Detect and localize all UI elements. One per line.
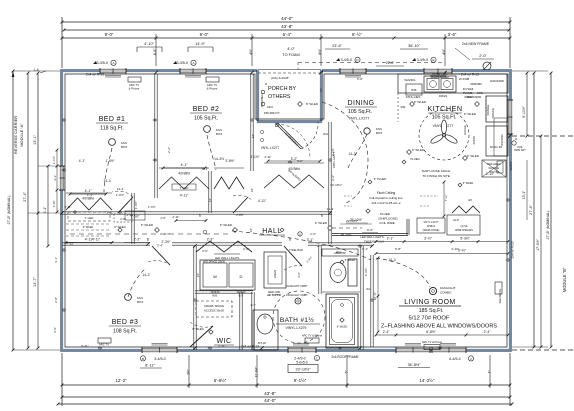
hall-living dashed arc bbox=[232, 231, 371, 260]
svg-text:2’-11”: 2’-11” bbox=[218, 344, 225, 348]
svg-text:D: D bbox=[240, 274, 243, 279]
svg-text:CRAWL SPACE: CRAWL SPACE bbox=[204, 304, 224, 308]
svg-text:23’-6”: 23’-6” bbox=[332, 44, 342, 48]
bed2 fan box bbox=[204, 126, 225, 170]
svg-text:105 Sq.Ft.: 105 Sq.Ft. bbox=[348, 109, 372, 115]
svg-text:6” WLED: 6” WLED bbox=[414, 100, 427, 104]
svg-text:FAN/LIGHT CMBT: FAN/LIGHT CMBT bbox=[287, 285, 308, 288]
svg-text:7’ LED: 7’ LED bbox=[85, 216, 95, 220]
svg-text:12’-6½”: 12’-6½” bbox=[255, 367, 259, 378]
bath mirror medicine cabinet bbox=[289, 248, 358, 256]
svg-text:6” WLED: 6” WLED bbox=[192, 327, 203, 331]
svg-text:2’-1”: 2’-1” bbox=[164, 232, 170, 236]
svg-text:TWSP AWY (2)-0: TWSP AWY (2)-0 bbox=[364, 240, 385, 244]
svg-text:3½”: 3½” bbox=[187, 369, 191, 375]
interior wall hall/bed2 closet bbox=[209, 171, 211, 213]
svg-text:RAD430R: RAD430R bbox=[490, 79, 504, 83]
svg-text:DW: DW bbox=[401, 105, 406, 109]
window schedule labels above top wall bbox=[93, 57, 436, 65]
svg-text:10’-10½”: 10’-10½” bbox=[330, 183, 342, 187]
svg-text:6” WLED: 6” WLED bbox=[83, 225, 94, 229]
window B bed3 bottom wall bbox=[142, 347, 177, 353]
svg-text:(SHIPLOOSE): (SHIPLOOSE) bbox=[378, 217, 397, 221]
svg-text:44’-0”: 44’-0” bbox=[264, 398, 276, 403]
svg-text:43’-8”: 43’-8” bbox=[281, 24, 293, 29]
svg-text:2’-10”: 2’-10” bbox=[486, 172, 494, 176]
svg-text:6’-4”: 6’-4” bbox=[283, 32, 292, 37]
svg-text:29’-10½”: 29’-10½” bbox=[346, 219, 358, 223]
svg-text:118 Sq.Ft.: 118 Sq.Ft. bbox=[100, 126, 124, 132]
svg-text:4’-11”: 4’-11” bbox=[92, 238, 100, 242]
svg-text:PORCH BY: PORCH BY bbox=[268, 86, 297, 92]
label WIC bbox=[214, 338, 234, 345]
bifold closet bed1 bbox=[66, 189, 112, 210]
svg-text:2’-2”: 2’-2” bbox=[134, 238, 141, 242]
svg-text:$: $ bbox=[289, 238, 291, 242]
svg-text:3’-1”: 3’-1” bbox=[362, 247, 368, 251]
svg-text:3’-11”: 3’-11” bbox=[107, 211, 114, 215]
svg-text:27’-8” (NOMINAL): 27’-8” (NOMINAL) bbox=[7, 196, 11, 225]
svg-text:43’-8”: 43’-8” bbox=[264, 391, 276, 396]
svg-text:1’-10”: 1’-10” bbox=[52, 200, 56, 207]
svg-text:3’-6”: 3’-6” bbox=[53, 327, 57, 333]
svg-text:9’-0”: 9’-0” bbox=[200, 32, 209, 37]
wic door bbox=[190, 322, 213, 347]
svg-text:3’-1½”: 3’-1½” bbox=[250, 155, 259, 159]
bed3 door bbox=[148, 246, 170, 265]
svg-text:SHIP LOOSE 140x4x: SHIP LOOSE 140x4x bbox=[422, 169, 451, 173]
svg-text:5’-8”: 5’-8” bbox=[395, 247, 401, 251]
window A bed2 top wall bbox=[180, 68, 206, 74]
svg-text:23’-10½”: 23’-10½” bbox=[296, 368, 312, 372]
svg-text:BED #2: BED #2 bbox=[193, 106, 220, 113]
svg-text:105 Sq.Ft.: 105 Sq.Ft. bbox=[194, 116, 218, 122]
dining fan box bbox=[348, 127, 382, 168]
svg-text:RNPBL: RNPBL bbox=[472, 135, 476, 144]
washer dryer space bbox=[200, 254, 255, 297]
svg-text:16”: 16” bbox=[208, 198, 212, 202]
svg-text:9’-0”: 9’-0” bbox=[105, 32, 114, 37]
svg-text:6” WLED: 6” WLED bbox=[315, 221, 328, 225]
svg-text:4/0 Bifld: 4/0 Bifld bbox=[82, 197, 94, 201]
svg-text:3’-6½”: 3’-6½” bbox=[364, 268, 368, 277]
svg-text:MODULE “B”: MODULE “B” bbox=[562, 267, 567, 292]
bottom dimension lines 12'-2 / 43'-8 / 44'-0 bbox=[57, 353, 514, 406]
svg-text:VNYL.LX277: VNYL.LX277 bbox=[424, 220, 440, 224]
svg-text:8½”: 8½” bbox=[318, 49, 322, 55]
interior wall bath right / living left bbox=[361, 246, 373, 350]
svg-text:W3612: W3612 bbox=[427, 224, 436, 228]
svg-text:2x4 w/ R-13: 2x4 w/ R-13 bbox=[241, 345, 259, 349]
svg-text:DW24: DW24 bbox=[439, 94, 448, 98]
svg-text:W2230L: W2230L bbox=[404, 78, 416, 82]
svg-text:BED #1: BED #1 bbox=[99, 116, 126, 123]
label DINING 105 sqft bbox=[345, 100, 377, 121]
interior wall bed1/bed2 divider bbox=[155, 74, 157, 198]
label KITCHEN 105 sqft bbox=[427, 104, 462, 128]
svg-text:14–3: 14–3 bbox=[117, 187, 124, 191]
svg-text:5’-2”: 5’-2” bbox=[297, 159, 303, 163]
bed2 door bbox=[233, 195, 252, 213]
label BED #1 bbox=[96, 116, 128, 132]
svg-text:GFCI: GFCI bbox=[267, 105, 273, 109]
svg-text:4/0 Bifld: 4/0 Bifld bbox=[178, 172, 190, 176]
bottom window/door schedule labels bbox=[140, 355, 474, 373]
interior wall bath/toilet divider bbox=[319, 246, 321, 294]
svg-text:36’-10”: 36’-10” bbox=[408, 44, 421, 48]
svg-text:2x4 NEW FRAME: 2x4 NEW FRAME bbox=[462, 42, 490, 46]
extra annotation clutter kitchen-dining bbox=[81, 61, 513, 348]
svg-text:2’-6”: 2’-6” bbox=[120, 217, 126, 221]
svg-text:PIR-389-2½”: PIR-389-2½” bbox=[264, 111, 280, 115]
interior wall entry right bbox=[329, 122, 331, 244]
svg-text:LED WALL LIGHTS: LED WALL LIGHTS bbox=[215, 256, 240, 260]
svg-text:& Phone: & Phone bbox=[207, 86, 218, 90]
svg-text:$: $ bbox=[147, 238, 149, 242]
svg-text:27’-8” (NOMINAL): 27’-8” (NOMINAL) bbox=[546, 211, 550, 240]
svg-text:4’-11”: 4’-11” bbox=[66, 242, 74, 246]
svg-text:3-4/5-0: 3-4/5-0 bbox=[154, 357, 165, 361]
svg-text:5’-3½”: 5’-3½” bbox=[460, 237, 470, 241]
svg-text:3-4/5-0: 3-4/5-0 bbox=[97, 61, 108, 65]
svg-text:3’-4”: 3’-4” bbox=[157, 244, 163, 248]
svg-text:B: B bbox=[142, 357, 144, 361]
interior wall bed2 right bbox=[251, 74, 253, 171]
svg-text:2’-1”: 2’-1” bbox=[387, 237, 394, 241]
linen closet bbox=[264, 252, 286, 297]
living room right wall detail bbox=[495, 282, 502, 303]
svg-text:T’WEL BAR: T’WEL BAR bbox=[289, 248, 303, 252]
svg-text:COMBO: COMBO bbox=[440, 290, 452, 294]
svg-text:SEE DETAIL: SEE DETAIL bbox=[498, 288, 502, 303]
bath fan light bbox=[286, 293, 308, 304]
svg-text:OTHERS: OTHERS bbox=[268, 94, 291, 100]
svg-text:SPACE: SPACE bbox=[491, 108, 495, 118]
svg-text:14–3: 14–3 bbox=[327, 207, 334, 211]
svg-text:15’-1”: 15’-1” bbox=[522, 191, 526, 199]
svg-text:1”: 1” bbox=[488, 371, 492, 374]
svg-text:MED CAB: MED CAB bbox=[268, 290, 280, 294]
svg-text:3’-8½”: 3’-8½” bbox=[225, 159, 234, 163]
svg-text:44’-0”: 44’-0” bbox=[281, 16, 293, 21]
svg-text:2’-11”: 2’-11” bbox=[65, 205, 72, 209]
svg-text:A: A bbox=[192, 61, 194, 65]
svg-text:27’-4”: 27’-4” bbox=[23, 191, 27, 201]
svg-text:2’-3”: 2’-3” bbox=[207, 238, 214, 242]
svg-text:4’-1”: 4’-1” bbox=[53, 175, 57, 181]
living room top dimension strings bbox=[375, 237, 510, 255]
svg-text:6” WLED: 6” WLED bbox=[467, 154, 480, 158]
svg-text:2’-0”: 2’-0” bbox=[479, 54, 487, 58]
wall junction slashes bbox=[60, 71, 512, 350]
svg-text:Ref Floor: Ref Floor bbox=[489, 166, 500, 170]
svg-text:7’-¾”: 7’-¾” bbox=[444, 195, 448, 201]
svg-text:2’-8”: 2’-8” bbox=[54, 297, 58, 303]
svg-text:LINEN: LINEN bbox=[273, 270, 277, 278]
svg-text:B.V.: B.V. bbox=[239, 293, 244, 297]
svg-text:KITCHEN: KITCHEN bbox=[427, 104, 462, 113]
svg-text:4’-1”: 4’-1” bbox=[79, 159, 85, 163]
label BATH #1 bbox=[276, 316, 320, 330]
svg-text:6” WLED: 6” WLED bbox=[337, 325, 348, 329]
svg-text:BATH #1½: BATH #1½ bbox=[280, 316, 314, 324]
living room bottom dimension strings bbox=[375, 330, 510, 350]
window A bed1 top wall bbox=[100, 68, 126, 74]
svg-text:$: $ bbox=[199, 214, 201, 218]
svg-text:REF AREA: REF AREA bbox=[487, 162, 501, 166]
svg-text:BOX: BOX bbox=[121, 145, 127, 149]
svg-text:VINYL-LX279: VINYL-LX279 bbox=[286, 326, 307, 330]
svg-text:BED #3: BED #3 bbox=[112, 319, 139, 326]
svg-text:36’-8½”: 36’-8½” bbox=[408, 363, 422, 367]
svg-text:16”: 16” bbox=[319, 88, 323, 92]
svg-text:14’-7”: 14’-7” bbox=[33, 276, 37, 286]
svg-text:5”: 5” bbox=[345, 371, 349, 374]
svg-text:28–10½: 28–10½ bbox=[341, 233, 352, 237]
svg-text:6” WLED: 6” WLED bbox=[464, 112, 477, 116]
svg-text:DINING: DINING bbox=[348, 100, 375, 107]
svg-text:TO FOAM: TO FOAM bbox=[282, 53, 299, 57]
closet dim ticks bbox=[65, 160, 322, 244]
svg-text:4½”: 4½” bbox=[249, 49, 253, 55]
svg-text:& Phone: & Phone bbox=[129, 86, 140, 90]
svg-text:W.H.: W.H. bbox=[366, 287, 372, 291]
svg-text:6” WLED: 6” WLED bbox=[463, 181, 474, 185]
svg-text:3’-6”: 3’-6” bbox=[448, 32, 457, 37]
scattered dimension texts bbox=[79, 147, 352, 288]
window living room bottom wall (right) bbox=[432, 347, 466, 353]
bifold closet bed2 bbox=[159, 163, 209, 198]
svg-text:ALP: ALP bbox=[453, 218, 459, 222]
svg-text:ARC TV & Phone: ARC TV & Phone bbox=[422, 340, 443, 344]
right dimension lines and MODULE B bbox=[512, 71, 574, 350]
svg-text:108 Sq.Ft.: 108 Sq.Ft. bbox=[113, 329, 137, 335]
wall insulation notes bbox=[86, 73, 515, 349]
entry extra marks bbox=[260, 124, 310, 163]
svg-text:1’-6½”: 1’-6½” bbox=[148, 205, 156, 209]
svg-text:9’-½”: 9’-½” bbox=[458, 249, 467, 253]
svg-text:ARC TV: ARC TV bbox=[99, 343, 109, 347]
svg-text:W/D SPACE 28x30: W/D SPACE 28x30 bbox=[203, 260, 226, 264]
svg-text:WIRE SHELVES: WIRE SHELVES bbox=[455, 229, 473, 232]
svg-text:14–3½: 14–3½ bbox=[214, 157, 224, 161]
svg-text:3’-½”: 3’-½” bbox=[424, 237, 432, 241]
kitchen extra marks bbox=[477, 92, 506, 177]
svg-text:6-4/5-4: 6-4/5-4 bbox=[449, 357, 460, 361]
svg-text:MT-32: MT-32 bbox=[258, 341, 266, 345]
interior wall bed3/wic divider bbox=[194, 246, 196, 350]
svg-text:3’-0”: 3’-0” bbox=[297, 272, 301, 278]
svg-text:1’-7”: 1’-7” bbox=[250, 303, 256, 307]
extra annotation clutter hall-bed band bbox=[65, 151, 336, 241]
bifold closet entry bbox=[264, 167, 324, 188]
svg-text:1’-1½”: 1’-1½” bbox=[52, 156, 56, 164]
svg-text:2’-0”: 2’-0” bbox=[243, 247, 249, 251]
kitchen ceiling fan with clearance circle bbox=[419, 110, 469, 160]
svg-text:6” WLED: 6” WLED bbox=[306, 102, 319, 106]
svg-text:5/12 70# ROOF: 5/12 70# ROOF bbox=[409, 316, 450, 322]
svg-text:26’-6”: 26’-6” bbox=[386, 61, 394, 65]
svg-text:W2430: W2430 bbox=[237, 290, 246, 294]
bath door bbox=[284, 246, 302, 270]
svg-text:Full-drywall to ceiling line: Full-drywall to ceiling line bbox=[369, 196, 403, 200]
svg-text:B36: B36 bbox=[412, 88, 417, 92]
bath toilet bbox=[330, 250, 357, 286]
window D dining top wall bbox=[340, 68, 366, 74]
svg-text:Flush Ceiling: Flush Ceiling bbox=[377, 191, 396, 195]
svg-text:VNYL.LX277: VNYL.LX277 bbox=[332, 151, 336, 168]
bath vanity sink bbox=[253, 310, 278, 350]
svg-text:RANGE: RANGE bbox=[463, 125, 467, 134]
porch entry door bbox=[275, 122, 318, 149]
svg-text:RANGE: RANGE bbox=[486, 105, 490, 116]
svg-text:MIRROR: MIRROR bbox=[334, 251, 345, 255]
extra annotation clutter middle band bbox=[33, 68, 459, 303]
svg-text:4’-10”: 4’-10” bbox=[451, 247, 459, 251]
svg-text:FAN/LIGHT CMBT: FAN/LIGHT CMBT bbox=[286, 293, 308, 297]
svg-text:DNSPT: DNSPT bbox=[509, 161, 513, 170]
svg-text:14–3: 14–3 bbox=[348, 152, 355, 156]
svg-text:BOX: BOX bbox=[376, 131, 382, 135]
hall dimension strings bbox=[66, 238, 313, 243]
svg-text:27’-4”: 27’-4” bbox=[529, 204, 533, 214]
svg-text:4’-11”: 4’-11” bbox=[173, 215, 180, 219]
svg-text:HALL: HALL bbox=[262, 228, 282, 235]
bath tub 60in bbox=[326, 294, 358, 348]
kitchen counter and sink bbox=[398, 72, 508, 99]
top dimension lines 44'-0 / 43'-8 / segment dims bbox=[61, 16, 512, 68]
svg-text:2x4 w/ R-19: 2x4 w/ R-19 bbox=[461, 73, 479, 77]
svg-text:9’-6”: 9’-6” bbox=[367, 228, 373, 232]
svg-text:1’-10”: 1’-10” bbox=[126, 213, 133, 217]
svg-text:2x4 w/ R-13: 2x4 w/ R-13 bbox=[511, 241, 515, 258]
svg-text:16”: 16” bbox=[250, 188, 254, 192]
svg-text:Z–FLASHING ABOVE ALL WINDOW: Z–FLASHING ABOVE ALL WINDOWS/DOORS bbox=[381, 324, 497, 330]
svg-text:13’-1”: 13’-1” bbox=[33, 134, 37, 144]
window living room bottom wall (left) bbox=[396, 347, 430, 353]
kitchen right wall cabinets range ref bbox=[406, 84, 508, 178]
hall soffit box bbox=[125, 211, 145, 220]
svg-text:5’-11”: 5’-11” bbox=[81, 344, 88, 348]
more scattered annotations bbox=[53, 137, 526, 333]
bifold closet hall linen bbox=[214, 177, 244, 189]
svg-text:3-4/5-0: 3-4/5-0 bbox=[177, 61, 188, 65]
bath clearance circle bbox=[273, 291, 325, 343]
dining door swing arc bbox=[322, 102, 368, 204]
svg-text:6’-8½”: 6’-8½” bbox=[426, 330, 436, 334]
svg-text:3-4/5-0: 3-4/5-0 bbox=[417, 58, 428, 62]
svg-text:9’-1½”: 9’-1½” bbox=[294, 378, 307, 383]
svg-text:14–3: 14–3 bbox=[142, 273, 149, 277]
bed1 door bbox=[112, 191, 133, 213]
svg-text:(2x6) 2x10x8”: (2x6) 2x10x8” bbox=[271, 76, 289, 80]
svg-text:VNYL.LX277: VNYL.LX277 bbox=[261, 146, 280, 150]
svg-text:5’-8½”: 5’-8½” bbox=[214, 378, 227, 383]
svg-text:7’ LED: 7’ LED bbox=[180, 186, 190, 190]
secondary top dims and 2x4 NEW FRAME note bbox=[137, 42, 494, 70]
svg-text:5’-0”: 5’-0” bbox=[202, 249, 208, 253]
svg-text:DWN SPT: DWN SPT bbox=[514, 149, 526, 152]
svg-text:COIL WIRE: COIL WIRE bbox=[379, 221, 395, 225]
entry floor note bbox=[251, 134, 279, 150]
svg-text:1’-6½”: 1’-6½” bbox=[134, 201, 138, 210]
svg-text:2’-2”: 2’-2” bbox=[167, 147, 171, 153]
svg-text:PLUED: PLUED bbox=[380, 212, 391, 216]
svg-text:2’-4”: 2’-4” bbox=[484, 330, 491, 334]
svg-text:12’-2”: 12’-2” bbox=[115, 378, 127, 383]
svg-text:9’-10½”: 9’-10½” bbox=[522, 106, 526, 118]
svg-text:6” PLUED: 6” PLUED bbox=[374, 177, 387, 181]
svg-text:4’-1”: 4’-1” bbox=[181, 163, 188, 167]
svg-text:DOORBELL: DOORBELL bbox=[260, 92, 264, 107]
svg-text:2x4 ROOF FRAME: 2x4 ROOF FRAME bbox=[331, 355, 358, 359]
svg-text:TO FINISH ON SITE: TO FINISH ON SITE bbox=[422, 174, 450, 178]
svg-text:1–6: 1–6 bbox=[33, 68, 39, 72]
svg-text:8’-11”: 8’-11” bbox=[145, 364, 155, 368]
svg-text:(4) 5A: (4) 5A bbox=[460, 224, 467, 228]
crawl space access bbox=[196, 301, 232, 317]
label BED #2 bbox=[190, 106, 222, 122]
svg-text:2’-3”: 2’-3” bbox=[310, 232, 316, 236]
interior wall closet backs bbox=[66, 163, 324, 193]
svg-text:16”: 16” bbox=[249, 228, 253, 232]
hall lights and ceiling dashed line bbox=[70, 221, 332, 236]
label LIVING ROOM bbox=[381, 299, 497, 330]
svg-text:2’-4”: 2’-4” bbox=[383, 330, 390, 334]
svg-text:185 Sq.Ft.: 185 Sq.Ft. bbox=[419, 308, 444, 314]
svg-text:PLUED: PLUED bbox=[410, 157, 419, 161]
svg-text:14–3: 14–3 bbox=[388, 258, 395, 262]
svg-text:1’-1”: 1’-1” bbox=[87, 193, 93, 197]
svg-text:GFCI: GFCI bbox=[477, 92, 483, 95]
svg-text:W.H.: W.H. bbox=[323, 132, 329, 136]
svg-text:VNYL.LX277: VNYL.LX277 bbox=[349, 117, 370, 121]
flush ceiling note, half wall and overhead cabinets bbox=[332, 181, 480, 236]
svg-text:17’-5½”: 17’-5½” bbox=[536, 239, 540, 251]
left dimension lines and REVERSE CARRIER MODULE A bbox=[7, 70, 60, 352]
svg-text:4’-0”: 4’-0” bbox=[287, 47, 295, 51]
kitchen 6in wled lights bbox=[407, 100, 480, 160]
svg-text:4’-11”: 4’-11” bbox=[258, 199, 266, 203]
interior wall toilet-tub divider bbox=[322, 291, 360, 293]
svg-text:4½”: 4½” bbox=[442, 49, 446, 55]
svg-text:BOX: BOX bbox=[137, 300, 143, 304]
svg-text:105 Sq.Ft.: 105 Sq.Ft. bbox=[432, 115, 457, 121]
svg-text:6” WLED: 6” WLED bbox=[141, 223, 154, 227]
svg-text:WIR30R: WIR30R bbox=[470, 82, 482, 86]
svg-text:ARC TV & Phone: ARC TV & Phone bbox=[302, 334, 323, 338]
svg-text:(SHIPLOOSE): (SHIPLOOSE) bbox=[423, 228, 440, 232]
svg-text:8’-½”: 8’-½” bbox=[352, 32, 363, 37]
svg-text:6” WLED: 6” WLED bbox=[345, 258, 356, 262]
svg-text:16”: 16” bbox=[196, 273, 200, 277]
left wall inner dim chain bbox=[52, 149, 58, 214]
interior wall hall top bbox=[62, 212, 332, 214]
svg-text:4’-1”: 4’-1” bbox=[43, 207, 47, 213]
svg-text:1’-0”: 1’-0” bbox=[160, 216, 166, 220]
svg-text:2x6 1⅝x1½x7⁄8 w/L-2: 2x6 1⅝x1½x7⁄8 w/L-2 bbox=[371, 201, 400, 205]
svg-text:4/0: 4/0 bbox=[468, 198, 472, 202]
svg-text:10’-½”: 10’-½” bbox=[373, 292, 377, 301]
label HALL bbox=[259, 228, 285, 235]
svg-text:ACCESS 30x30: ACCESS 30x30 bbox=[204, 308, 224, 312]
svg-text:3-4/5-0: 3-4/5-0 bbox=[341, 58, 352, 62]
label BED #3 bbox=[109, 319, 141, 335]
wic light bbox=[192, 327, 213, 334]
window C bath bottom wall bbox=[288, 347, 316, 353]
svg-text:$: $ bbox=[321, 214, 323, 218]
duplex outlets bbox=[62, 119, 510, 350]
